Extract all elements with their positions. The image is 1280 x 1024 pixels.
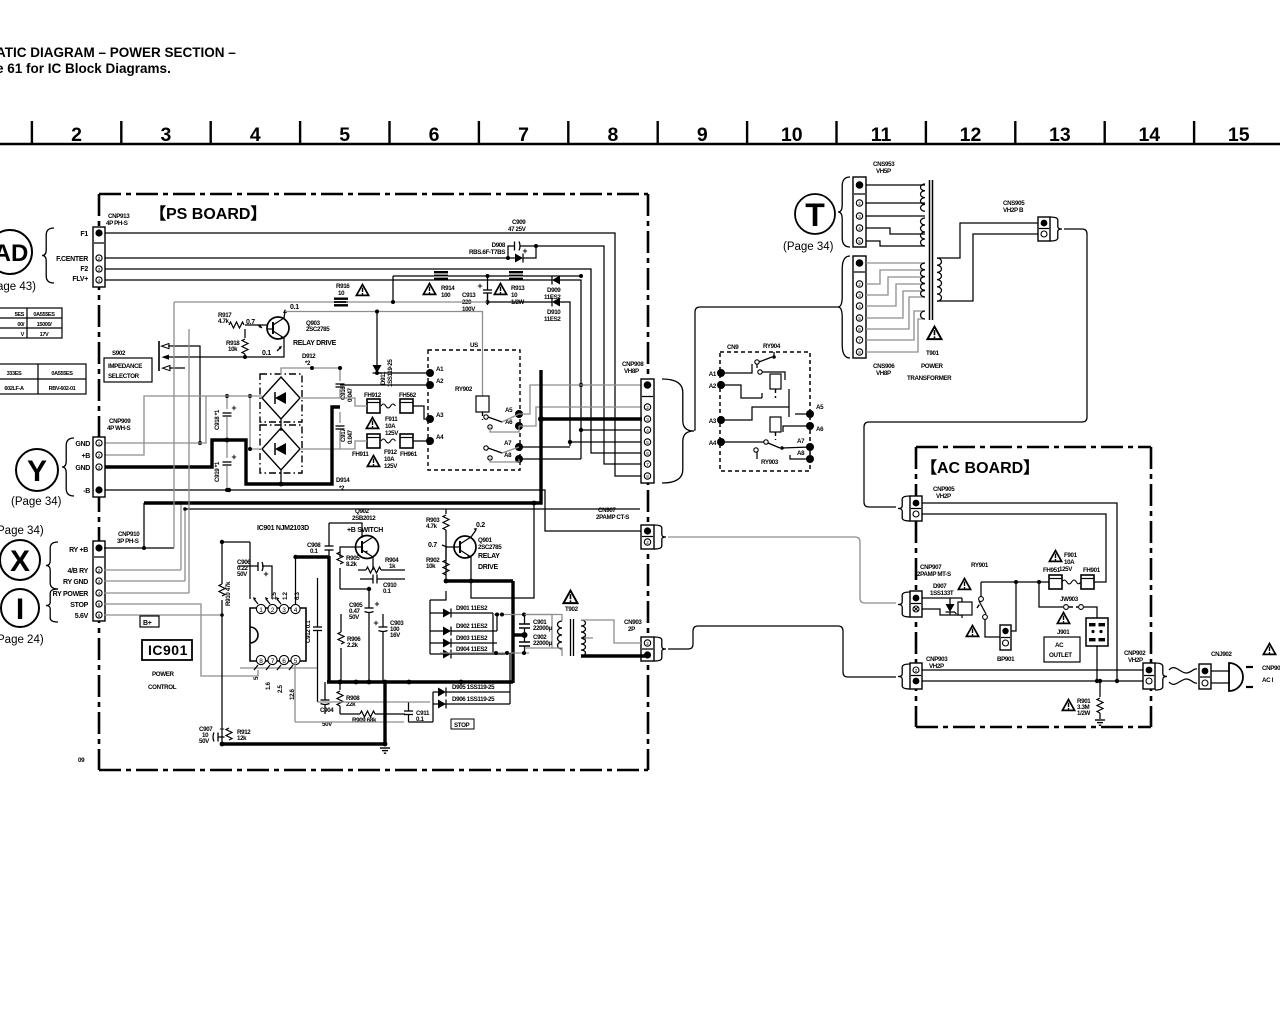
- svg-text:C904: C904: [320, 707, 334, 714]
- svg-text:RELAY DRIVE: RELAY DRIVE: [293, 340, 337, 347]
- capacitor C912: [305, 578, 322, 702]
- svg-text:RY901: RY901: [971, 562, 989, 569]
- thick bus bottom: [327, 680, 513, 683]
- wire pin1 riser: [238, 542, 250, 599]
- svg-text:D910: D910: [547, 309, 561, 316]
- svg-text:4: 4: [98, 591, 101, 596]
- svg-text:CNP913: CNP913: [108, 213, 130, 220]
- gray mid rail: [493, 615, 552, 649]
- diode D909: [544, 276, 642, 460]
- svg-text:Y: Y: [27, 455, 47, 488]
- connector CNS906: [853, 256, 866, 358]
- svg-text:2: 2: [646, 540, 649, 545]
- svg-text:CNP908: CNP908: [622, 361, 644, 368]
- wire outlet to rail: [1096, 646, 1098, 681]
- svg-text:3P PH-S: 3P PH-S: [117, 538, 139, 545]
- svg-text:AC: AC: [1055, 642, 1064, 649]
- svg-text:50V: 50V: [199, 738, 210, 745]
- wire gray riser 3: [104, 604, 258, 676]
- diode rail left: [430, 591, 446, 654]
- label Q903: [293, 320, 337, 347]
- svg-text:A6: A6: [816, 426, 824, 433]
- wire CNP905 pin1: [922, 503, 1117, 681]
- resistor R909: [340, 711, 405, 724]
- gray bottom rail: [295, 662, 430, 722]
- label T901 POWER TRANSFORMER: [907, 350, 952, 382]
- svg-text:0.7: 0.7: [428, 542, 437, 549]
- IC901 pin 5: [289, 655, 300, 670]
- wire fuse row1 to A3: [413, 406, 430, 419]
- wires from selector: [168, 346, 245, 443]
- svg-text:IC901: IC901: [148, 642, 188, 658]
- resistor R913: [509, 271, 525, 306]
- svg-text:8.2k: 8.2k: [346, 561, 358, 568]
- thick bus vertical: [327, 556, 330, 683]
- svg-text:R909 68k: R909 68k: [352, 717, 377, 724]
- node A6: [505, 419, 523, 430]
- svg-text:D903 11ES2: D903 11ES2: [456, 635, 488, 642]
- brace left of CNP903: [898, 664, 910, 689]
- connector CNP907: [910, 591, 922, 617]
- junction D911 top: [375, 310, 379, 314]
- svg-text:0.1: 0.1: [290, 304, 299, 311]
- resistor R914: [434, 271, 455, 299]
- node A3 cn9: [709, 416, 725, 425]
- node A8: [504, 452, 523, 463]
- thick link to caps: [513, 633, 525, 636]
- brace for X group: [46, 542, 58, 589]
- resistor R916: [334, 283, 350, 307]
- bridge rectifier D914: [260, 425, 302, 473]
- svg-text:A1: A1: [709, 371, 717, 378]
- node A5: [505, 407, 523, 418]
- node A7: [504, 440, 523, 451]
- fuse F901 element: [1062, 580, 1080, 584]
- svg-text:4: 4: [250, 124, 261, 146]
- svg-text:FH911: FH911: [352, 451, 369, 458]
- svg-text:10: 10: [511, 292, 518, 299]
- wire q901 emitter to bus: [470, 557, 472, 581]
- diode D910: [486, 293, 643, 446]
- svg-text:F.CENTER: F.CENTER: [56, 256, 88, 263]
- svg-text:+B: +B: [81, 453, 90, 460]
- svg-text:RY904: RY904: [763, 343, 781, 350]
- gray mid rail dots: [495, 613, 526, 617]
- wire secondary right to CNS905: [937, 223, 1038, 301]
- wire thick -B rail: [104, 490, 641, 531]
- svg-text:AC I: AC I: [1262, 677, 1274, 684]
- thick bus top right: [446, 579, 513, 582]
- wire A8 to CNP908 pin4: [519, 458, 581, 460]
- label CNP905: [933, 486, 955, 500]
- svg-text:6: 6: [646, 451, 649, 456]
- wire q903 emitter down: [245, 338, 284, 357]
- label 0.2: [471, 522, 485, 537]
- svg-text:7: 7: [858, 338, 861, 343]
- brace for AD group: [42, 228, 54, 283]
- svg-text:【PS BOARD】: 【PS BOARD】: [150, 205, 266, 223]
- svg-text:CONTROL: CONTROL: [148, 684, 177, 691]
- page-ref circle I: [1, 589, 39, 627]
- svg-text:10k: 10k: [426, 563, 436, 570]
- spec table 1: [0, 308, 62, 338]
- svg-text:A5: A5: [816, 404, 824, 411]
- capacitor C906: [237, 559, 272, 599]
- junction caps: [522, 632, 528, 638]
- svg-text:C918 *1: C918 *1: [214, 409, 221, 430]
- connector CNP909: [93, 437, 105, 497]
- svg-text:4: 4: [858, 226, 861, 231]
- svg-text:RELAY: RELAY: [478, 553, 500, 560]
- wire A2 to relay: [340, 384, 430, 386]
- node A7 cn9: [797, 438, 814, 451]
- svg-text:D901 11ES2: D901 11ES2: [456, 605, 488, 612]
- svg-text:CNP910: CNP910: [118, 531, 140, 538]
- svg-text:Q901: Q901: [478, 537, 493, 544]
- svg-text:RY POWER: RY POWER: [53, 591, 89, 598]
- label 0.7 q901: [428, 542, 447, 549]
- IC901 pin 8: [254, 655, 266, 670]
- label D914 *2: [336, 477, 350, 492]
- svg-text:15000/: 15000/: [37, 322, 53, 328]
- svg-text:11ES2: 11ES2: [544, 316, 561, 323]
- capacitor C908: [307, 523, 334, 557]
- svg-text:Q902: Q902: [355, 508, 370, 515]
- fuse holder FH911: [352, 434, 380, 458]
- wire R905 C905 link: [340, 588, 369, 590]
- svg-text:0A555ES: 0A555ES: [51, 371, 73, 377]
- svg-text:5: 5: [294, 658, 298, 665]
- connector CNP902: [1143, 663, 1155, 689]
- svg-text:D912: D912: [302, 353, 316, 360]
- svg-text:16V: 16V: [390, 632, 401, 639]
- svg-text:10k: 10k: [228, 346, 238, 353]
- brace right of CNP908: [662, 379, 694, 483]
- brace right of CNS905: [1050, 217, 1062, 241]
- svg-text:6: 6: [858, 327, 861, 332]
- connector CNJ902: [1199, 664, 1211, 689]
- svg-text:125V: 125V: [384, 463, 398, 470]
- svg-text:CNP902: CNP902: [1124, 650, 1146, 657]
- warning triangle near R916: [356, 285, 368, 296]
- node A2: [426, 378, 444, 389]
- svg-text:Page 34): Page 34): [0, 525, 44, 537]
- svg-text:2PAMP MT-S: 2PAMP MT-S: [917, 571, 951, 578]
- svg-text:age 43): age 43): [0, 281, 36, 293]
- ground symbol main: [380, 748, 390, 753]
- T901 secondary single: [921, 311, 926, 319]
- svg-text:CN903: CN903: [624, 619, 642, 626]
- svg-text:FH961: FH961: [400, 451, 418, 458]
- brace left of CNP905: [898, 496, 910, 521]
- thick bus right riser: [511, 581, 514, 683]
- svg-text:CN9: CN9: [727, 344, 739, 351]
- svg-text:3: 3: [98, 579, 101, 584]
- svg-text:JW903: JW903: [1060, 596, 1079, 603]
- svg-text:5: 5: [858, 316, 861, 321]
- resistor R901: [1062, 679, 1105, 725]
- capacitor C910: [360, 575, 405, 596]
- brace left of CNP907: [898, 592, 910, 617]
- wire R914 R913 rail: [393, 276, 581, 302]
- svg-text:5: 5: [339, 124, 350, 146]
- capacitor C903: [374, 614, 405, 682]
- svg-text:C917: C917: [340, 428, 347, 442]
- connector CNP910: [93, 541, 105, 621]
- label CNP910: [117, 531, 140, 545]
- PS BOARD outline: [99, 194, 648, 770]
- svg-text:AD: AD: [0, 240, 28, 267]
- relay RY901: [958, 562, 1001, 637]
- svg-text:0.1: 0.1: [383, 588, 391, 595]
- page-ref circle Y (Page 34): [11, 449, 62, 508]
- svg-text:2.2k: 2.2k: [347, 642, 359, 649]
- node A1: [426, 366, 444, 377]
- gray low rail dots: [494, 651, 526, 655]
- diode D901: [430, 605, 493, 618]
- diode D905: [433, 684, 510, 697]
- svg-text:3: 3: [858, 214, 861, 219]
- wire Q903 collector rail to RY902 coil: [285, 312, 483, 397]
- wire squiggle to CNJ902: [1169, 668, 1197, 685]
- T901 primary winding upper: [920, 184, 925, 211]
- svg-text:STOP: STOP: [454, 722, 470, 729]
- brace left of CNS906: [838, 256, 850, 358]
- label B+: [140, 616, 159, 627]
- svg-text:2: 2: [98, 453, 101, 458]
- svg-text:0.1: 0.1: [262, 350, 271, 357]
- svg-text:A5: A5: [505, 407, 513, 414]
- relay RY902 contact 2: [484, 446, 502, 460]
- diode D906: [433, 696, 510, 709]
- svg-text:CNP909: CNP909: [109, 418, 131, 425]
- svg-text:0.047: 0.047: [347, 429, 354, 444]
- label CNS953: [873, 161, 895, 175]
- junction C905: [367, 587, 371, 591]
- svg-text:POWER: POWER: [921, 363, 944, 370]
- label CNP913: [106, 213, 130, 227]
- resistor R906: [337, 614, 362, 682]
- label Q902: [347, 508, 383, 534]
- svg-text:3: 3: [282, 607, 286, 614]
- node A5 cn9: [806, 404, 824, 418]
- IC901 box label: [142, 640, 192, 691]
- svg-text:4: 4: [294, 607, 298, 614]
- connector CNP903: [910, 663, 922, 689]
- svg-text:A4: A4: [709, 440, 717, 447]
- svg-text:TRANSFORMER: TRANSFORMER: [907, 375, 952, 382]
- svg-text:2: 2: [915, 668, 918, 673]
- svg-text:00/: 00/: [17, 322, 24, 328]
- svg-text:0.047: 0.047: [347, 387, 354, 402]
- IC901 chip outline: [250, 525, 309, 661]
- svg-text:10A: 10A: [385, 423, 396, 430]
- wire gray riser 1: [104, 302, 185, 581]
- diode D903: [430, 635, 497, 648]
- brace right of CN907: [654, 525, 666, 549]
- svg-text:A2: A2: [709, 383, 717, 390]
- svg-text:2: 2: [858, 201, 861, 206]
- svg-text:2P: 2P: [628, 626, 635, 633]
- svg-text:C919 *1: C919 *1: [214, 461, 221, 482]
- RY904 contact bottom: [721, 440, 810, 459]
- junction AC rails: [1095, 679, 1119, 683]
- svg-text:R910 47k: R910 47k: [225, 581, 232, 606]
- svg-text:CNS906: CNS906: [873, 363, 895, 370]
- RY904 wires internal: [721, 364, 810, 432]
- diode D902: [430, 623, 497, 636]
- svg-text:A4: A4: [436, 434, 444, 441]
- junction pin4 top: [293, 555, 297, 604]
- page-ref circle AD (Page 43): [0, 230, 36, 293]
- label CN903: [624, 619, 642, 633]
- svg-text:1.2: 1.2: [282, 592, 289, 600]
- wires CNS906 to secondary: [866, 263, 925, 352]
- svg-text:T901: T901: [926, 350, 940, 357]
- fuse holder FH951: [1049, 575, 1062, 589]
- svg-text:GND: GND: [75, 441, 90, 448]
- wire section top rail: [185, 508, 640, 510]
- svg-text:*2: *2: [339, 485, 345, 492]
- svg-text:T: T: [805, 197, 825, 233]
- RY904 contact top: [755, 352, 785, 380]
- resistor R910: [218, 581, 233, 606]
- resistor R904: [358, 557, 405, 573]
- svg-text:D908: D908: [492, 242, 506, 249]
- svg-text:【AC BOARD】: 【AC BOARD】: [921, 459, 1039, 477]
- svg-text:15: 15: [1228, 124, 1250, 146]
- fuse F911: [381, 404, 399, 437]
- svg-text:5: 5: [98, 602, 101, 607]
- label CNP903: [926, 656, 948, 670]
- svg-text:11: 11: [871, 124, 892, 146]
- svg-text:RY902: RY902: [455, 386, 473, 393]
- svg-text:2: 2: [71, 124, 82, 146]
- wires CNS953 to primary: [866, 185, 925, 246]
- brace for Y group: [62, 438, 74, 496]
- svg-text:VH2P: VH2P: [929, 663, 944, 670]
- svg-text:1: 1: [259, 607, 263, 614]
- jumper JW903: [1039, 582, 1097, 618]
- wire CNP905 pin2: [922, 514, 1106, 582]
- svg-text:100: 100: [441, 292, 451, 299]
- label CNP902: [1124, 650, 1146, 664]
- svg-text:FH951: FH951: [1043, 567, 1061, 574]
- IC901 pin 6: [277, 655, 289, 670]
- label STOP: [451, 719, 474, 729]
- wire RY POWER long rail: [144, 370, 642, 503]
- svg-text:2SB2012: 2SB2012: [352, 515, 376, 522]
- label CNP909: [107, 418, 131, 432]
- wire gray riser 2: [104, 329, 189, 593]
- svg-text:3: 3: [646, 417, 649, 422]
- capacitor C905: [349, 589, 379, 682]
- label D912 *2: [302, 353, 316, 367]
- thick ground rail: [222, 742, 386, 745]
- junction q901: [444, 579, 474, 584]
- svg-text:2SC2785: 2SC2785: [306, 326, 330, 333]
- resistor R908: [337, 682, 360, 714]
- svg-text:X: X: [10, 545, 30, 578]
- relay RY902 coil: [476, 396, 489, 420]
- svg-text:C912 0.1: C912 0.1: [305, 620, 312, 643]
- svg-text:RY GND: RY GND: [63, 579, 88, 586]
- brace right of CNP902: [1155, 663, 1167, 690]
- svg-text:1k: 1k: [389, 563, 396, 570]
- svg-text:BP901: BP901: [997, 656, 1015, 663]
- svg-text:A3: A3: [709, 418, 717, 425]
- outlet J901: [1044, 613, 1080, 663]
- cut-off right label: [1262, 644, 1280, 685]
- thick ground riser: [383, 682, 386, 744]
- svg-text:10A: 10A: [1064, 559, 1075, 566]
- svg-text:0.1: 0.1: [310, 548, 318, 555]
- svg-text:2.5: 2.5: [277, 685, 284, 693]
- svg-text:A1: A1: [436, 366, 444, 373]
- thick bus left: [295, 555, 329, 558]
- wire C913 junction: [486, 274, 490, 278]
- svg-text:22000µ: 22000µ: [533, 640, 552, 647]
- warning triangle below relay: [966, 626, 978, 637]
- resistor R918: [226, 329, 248, 359]
- node A1 cn9: [709, 369, 725, 378]
- svg-text:3: 3: [98, 267, 101, 272]
- capacitor C916: [336, 384, 355, 402]
- svg-text:FH562: FH562: [399, 392, 417, 399]
- svg-text:14: 14: [1138, 124, 1160, 146]
- IC901 pin 4: [291, 604, 300, 614]
- svg-text:4: 4: [858, 304, 861, 309]
- outlet socket symbol: [1086, 618, 1108, 646]
- svg-text:1SS133T: 1SS133T: [930, 590, 954, 597]
- wire relay contacts to A5 A6: [490, 414, 519, 432]
- svg-text:4.7k: 4.7k: [218, 318, 230, 325]
- svg-text:333ES: 333ES: [7, 371, 22, 377]
- connector CNP913: [93, 227, 105, 287]
- svg-text:RBV-602-01: RBV-602-01: [49, 386, 76, 392]
- transformer T902: [558, 619, 586, 656]
- IC901 pin 2: [265, 597, 277, 614]
- svg-text:CNP90: CNP90: [1262, 665, 1280, 672]
- svg-text:B+: B+: [143, 620, 152, 627]
- page-ref circle T (Page 34): [783, 194, 835, 253]
- svg-text:VH2P B: VH2P B: [1003, 207, 1024, 214]
- resistor R902: [426, 547, 450, 575]
- wire AC rail bottom: [922, 680, 1143, 682]
- transformer T902 warning: [563, 591, 578, 613]
- svg-text:9: 9: [697, 124, 708, 146]
- svg-text:+B SWITCH: +B SWITCH: [347, 527, 383, 534]
- svg-text:13: 13: [1049, 124, 1071, 146]
- capacitor C901: [519, 614, 552, 632]
- label CNP907: [917, 564, 951, 578]
- capacitor C917: [336, 426, 355, 444]
- svg-text:5: 5: [646, 440, 649, 445]
- svg-text:2: 2: [271, 607, 275, 614]
- relay RY902 contact 1: [484, 415, 502, 429]
- wire bridge2 out to fuses: [300, 412, 367, 449]
- svg-text:D906 1SS119-25: D906 1SS119-25: [452, 696, 495, 703]
- capacitor C907: [199, 726, 229, 745]
- svg-text:R916: R916: [336, 283, 350, 290]
- diode D907: [922, 583, 962, 615]
- wire CN903 to AC board CNP903: [668, 626, 896, 677]
- svg-text:8: 8: [646, 474, 649, 479]
- svg-text:5: 5: [858, 239, 861, 244]
- svg-text:IC901 NJM2103D: IC901 NJM2103D: [257, 525, 309, 532]
- capacitor C911: [404, 702, 430, 723]
- AC BOARD outline: [916, 447, 1151, 727]
